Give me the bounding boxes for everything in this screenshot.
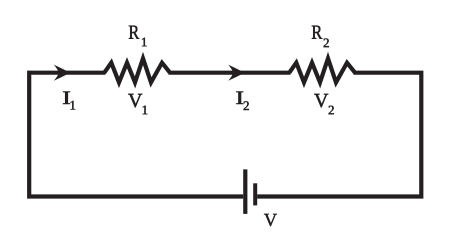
label V1 "V" [128, 94, 142, 107]
label V1 sub 1 [143, 106, 148, 115]
label V2 sub 2 [329, 106, 334, 115]
wire: top segment between R1 and R2 [169, 71, 291, 75]
battery V long plate [243, 169, 247, 214]
label I1 sub 1 [71, 101, 76, 110]
label R1 "R" [129, 26, 139, 39]
label R2 "R" [312, 26, 322, 39]
label V2 "V" [314, 94, 328, 107]
current arrow I2 [228, 65, 245, 81]
resistor R1 (zigzag) [104, 58, 170, 82]
label battery "V" [264, 214, 277, 226]
label R1 sub 1 [142, 38, 147, 47]
label I1 "I" [63, 92, 70, 104]
current arrow I1 [54, 65, 71, 81]
label R2 sub 2 [324, 38, 329, 47]
label I2 "I" [236, 92, 243, 104]
battery V short plate [253, 183, 257, 205]
wire: from battery positive plate, bottom-left segment, up left side, to resistor R1 [29, 73, 243, 197]
label I2 sub 2 [244, 101, 249, 110]
resistor R2 (zigzag) [289, 58, 355, 82]
wire: from R2 along top, down right side, bottom-right segment to battery negative plate [257, 73, 421, 197]
